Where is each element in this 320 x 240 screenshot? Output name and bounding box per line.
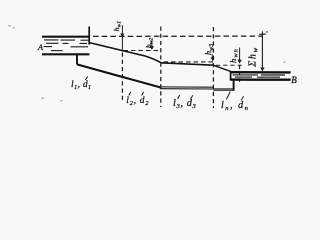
outlet trough top line [231, 71, 291, 74]
pipe l1-l2 sloping run [77, 64, 160, 87]
pipe outlet riser [233, 80, 235, 91]
junction dashed vertical at l3/ln [212, 27, 214, 108]
outlet water hatching [233, 75, 286, 77]
dashed extension at junction 2 level [164, 61, 214, 63]
h_wn dashed continuation [239, 66, 241, 85]
piezometric line segment 2 [161, 63, 214, 65]
dashed extension at junction 1 level [124, 50, 159, 52]
piezometric line segment 1 (curved) [89, 43, 160, 63]
h_wn arrowhead [237, 60, 241, 64]
outlet trough left wall [230, 71, 232, 80]
reference head dashed line [93, 35, 262, 37]
h_wn dimension line [239, 48, 241, 63]
h_w1 arrowhead at reference line [120, 33, 124, 37]
sum h_w arrowhead at outlet level [260, 67, 264, 71]
svg-text:B: B [291, 75, 297, 85]
sum h_w dimension line [261, 31, 263, 70]
sum h_w top tick [259, 33, 266, 35]
junction dashed vertical at l2/l3 [160, 27, 162, 108]
h_w2 dimension line [151, 41, 153, 50]
reservoir A water hatching [44, 40, 89, 51]
scan noise specks [9, 25, 286, 101]
h_w1 dimension line [121, 25, 123, 51]
h_w3 dimension line [211, 54, 213, 60]
reservoir A right wall [88, 27, 90, 45]
h_w3 arrowhead [210, 57, 214, 61]
outlet trough bottom line [231, 78, 291, 80]
label ascender strokes [85, 77, 243, 101]
junction dashed vertical at l1/l2 [121, 53, 123, 103]
pipe ln horizontal run [213, 88, 233, 90]
reservoir A bottom [42, 53, 89, 55]
pipe l3 horizontal run [160, 86, 214, 88]
svg-text:A: A [37, 43, 44, 52]
h_w2 arrowhead [150, 46, 154, 50]
piezometric line segment 3 to outlet [213, 65, 230, 71]
pipe l1 vertical drop at tank [76, 54, 78, 64]
dashed extension at junction 3 level [216, 64, 243, 66]
reservoir A water surface [42, 36, 89, 38]
